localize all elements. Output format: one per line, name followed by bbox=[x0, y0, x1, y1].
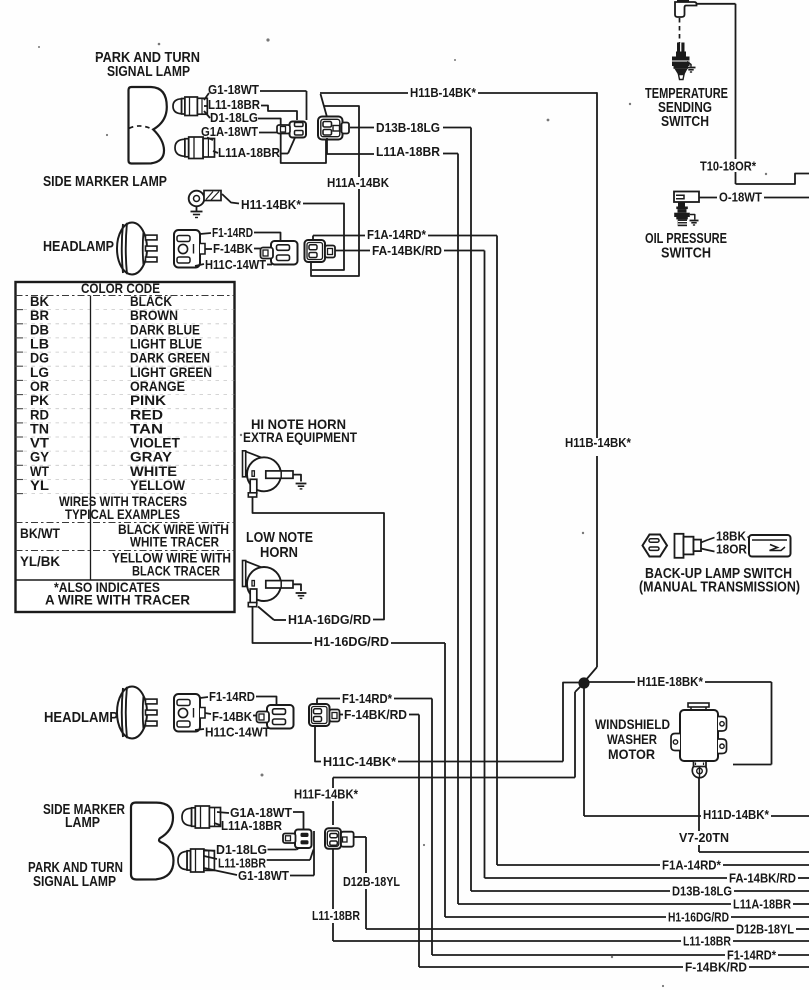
connector - harness side F1*/F (bot) bbox=[309, 704, 340, 726]
wire F-14BK stub (top hl) bbox=[205, 248, 212, 250]
svg-text:YL: YL bbox=[30, 477, 49, 493]
label D1-18LG (bot) bbox=[216, 842, 267, 857]
connector - harness side (front park/turn) bbox=[318, 117, 349, 140]
ground symbol (hi horn) bbox=[296, 484, 307, 489]
svg-text:F1A-14RD*: F1A-14RD* bbox=[367, 227, 427, 242]
svg-text:(MANUAL TRANSMISSION): (MANUAL TRANSMISSION) bbox=[639, 580, 800, 596]
label D12B-18YL (left) bbox=[343, 874, 400, 889]
svg-text:F1-14RD: F1-14RD bbox=[209, 689, 255, 704]
wire V7-20TN bbox=[699, 851, 809, 853]
ground wire (oil switch) bbox=[690, 215, 695, 220]
wire H11F-14BK* vertical bbox=[332, 778, 334, 826]
label H11A-14BK bbox=[327, 175, 390, 190]
wire H1A-16DG/RD loop bbox=[253, 497, 385, 620]
label L11-18BR (bottom fan) bbox=[683, 934, 731, 949]
wire H11E-18BK* stub bbox=[588, 681, 635, 683]
label PARK AND TURN SIGNAL LAMP (bottom) bbox=[28, 860, 123, 890]
svg-text:WINDSHIELD: WINDSHIELD bbox=[595, 716, 670, 732]
wire L11A-18BR vertical bbox=[457, 154, 459, 905]
label D13B-18LG (bottom fan) bbox=[672, 884, 732, 899]
wire D12B-18YL vertical bbox=[365, 837, 367, 929]
label F1-14RD (top hl) bbox=[212, 225, 253, 240]
wire L11-18BR bbox=[204, 106, 297, 121]
svg-text:H11B-14BK*: H11B-14BK* bbox=[410, 85, 477, 100]
label F-14BK (bot hl) bbox=[212, 709, 253, 724]
wire H11E-18BK* vertical bbox=[733, 682, 772, 765]
label H11B-14BK* (top) bbox=[410, 85, 477, 100]
svg-text:G1-18WT: G1-18WT bbox=[238, 868, 289, 883]
wire F-14BK/RD bbox=[409, 714, 419, 716]
wire O-18WT stub bbox=[699, 197, 717, 199]
label D1-18LG bbox=[210, 110, 258, 125]
wire L11A-18BR (front lamp) bbox=[213, 137, 296, 154]
washer motor right ear 2 bbox=[718, 739, 727, 754]
label H11B-14BK* (mid) bbox=[565, 435, 632, 450]
ground symbol (oil switch) bbox=[690, 221, 699, 226]
svg-text:D13B-18LG: D13B-18LG bbox=[672, 884, 732, 899]
label F1-14RD* (bottom fan) bbox=[727, 948, 777, 963]
svg-text:HORN: HORN bbox=[260, 545, 298, 561]
label BACK-UP LAMP SWITCH bbox=[645, 566, 792, 582]
ground eyelet terminal H11 bbox=[189, 191, 221, 207]
svg-text:HEADLAMP: HEADLAMP bbox=[43, 239, 114, 255]
washer pump bbox=[692, 761, 706, 778]
wire L11A-18BR stub (bot) bbox=[214, 823, 220, 825]
svg-text:F-14BK: F-14BK bbox=[213, 241, 254, 256]
wire G1A-18WT bbox=[207, 133, 290, 141]
label O-18WT bbox=[719, 190, 762, 205]
wire T10-18OR* to edge bbox=[736, 174, 810, 185]
svg-text:F1-14RD*: F1-14RD* bbox=[342, 691, 393, 706]
svg-text:D1-18LG: D1-18LG bbox=[210, 110, 258, 125]
bulb socket - park/turn (bottom) bbox=[178, 849, 214, 872]
label F1A-14RD* (top) bbox=[367, 227, 427, 242]
wire F1-14RD* bbox=[394, 698, 432, 700]
wire G1A-18WT (bot) bbox=[293, 812, 304, 829]
low note horn bbox=[243, 561, 294, 607]
wire T10-18OR* vertical bbox=[735, 4, 737, 184]
label F-14BK/RD (bot) bbox=[344, 707, 407, 722]
back-up lamp harness connector bbox=[749, 535, 791, 557]
bulb socket - side marker (bottom) bbox=[182, 806, 221, 828]
wire F-14BK/RD bottom run bbox=[419, 966, 683, 968]
wire from boot to T10 vertical bbox=[697, 3, 736, 5]
wire O-18WT to edge bbox=[764, 197, 809, 199]
svg-text:H11E-18BK*: H11E-18BK* bbox=[637, 674, 704, 689]
label SIDE MARKER LAMP (bottom) bbox=[43, 802, 125, 831]
wire H11C-14BK* from connector bbox=[315, 726, 321, 762]
wire F-14BK/RD stub (bot) bbox=[340, 714, 344, 716]
label (MANUAL TRANSMISSION) bbox=[639, 580, 800, 596]
svg-text:F1-14RD: F1-14RD bbox=[212, 225, 253, 240]
wire F1A-14RD* vertical bbox=[496, 236, 498, 866]
headlamp symbol (bottom) bbox=[117, 687, 157, 739]
label T10-18OR* bbox=[700, 159, 757, 174]
back-up lamp switch connector bbox=[675, 534, 702, 558]
wire F1-14RD* riser (bot) bbox=[317, 699, 340, 705]
wire L11A-18BR bbox=[443, 153, 458, 155]
svg-text:MOTOR: MOTOR bbox=[608, 746, 655, 762]
wire F1A-14RD* to edge bbox=[723, 864, 809, 866]
label L11-18BR bbox=[208, 97, 261, 112]
wire L11-18BR stub (bot) bbox=[204, 856, 217, 859]
wire L11-18BR bottom run bbox=[333, 940, 681, 942]
svg-text:H1-16DG/RD: H1-16DG/RD bbox=[668, 910, 729, 925]
label H11C-14WT (top hl) bbox=[205, 257, 266, 272]
connector - headlamp side (top hl pair) bbox=[261, 241, 298, 265]
svg-text:F-14BK: F-14BK bbox=[212, 709, 253, 724]
junction dot H11 grounds bbox=[578, 677, 589, 688]
label H11C-14WT (bot hl) bbox=[205, 725, 270, 740]
wire F1-14RD stub (top hl) bbox=[200, 233, 211, 234]
wire L11-18BR to edge bbox=[733, 940, 809, 942]
wire H11B-14BK* top run bbox=[320, 92, 408, 94]
svg-text:G1A-18WT: G1A-18WT bbox=[201, 124, 258, 139]
svg-text:TYPICAL EXAMPLES: TYPICAL EXAMPLES bbox=[65, 506, 180, 522]
label G1A-18WT bbox=[201, 124, 258, 139]
label 18OR bbox=[716, 542, 748, 557]
wire H11C-14WT stub (top hl) bbox=[195, 264, 272, 266]
svg-text:L11A-18BR: L11A-18BR bbox=[221, 818, 283, 833]
label F1-14RD (bot hl) bbox=[209, 689, 255, 704]
wire H11C-14BK* bbox=[398, 761, 563, 763]
wire H1-16DG/RD to edge bbox=[731, 916, 809, 918]
svg-text:SWITCH: SWITCH bbox=[661, 114, 709, 130]
svg-text:V7-20TN: V7-20TN bbox=[679, 830, 729, 845]
svg-text:G1-18WT: G1-18WT bbox=[208, 82, 259, 97]
label TEMPERATURE SENDING SWITCH bbox=[645, 86, 728, 130]
wire L11A-18BR from connector bbox=[327, 138, 374, 154]
oil pressure switch connector bbox=[674, 192, 699, 203]
wire H11D vertical bbox=[583, 687, 585, 816]
wire F1-14RD to pair (top hl) bbox=[254, 233, 281, 242]
label L11A-18BR (harness) bbox=[376, 144, 441, 159]
wire H11D-14BK* to edge bbox=[771, 815, 809, 817]
wire H11-14BK* bbox=[303, 204, 344, 271]
svg-text:T10-18OR*: T10-18OR* bbox=[700, 159, 757, 174]
label FA-14BK/RD (bottom fan) bbox=[729, 871, 796, 886]
wire FA-14BK/RD bbox=[444, 250, 485, 252]
ground wire (low horn) bbox=[293, 584, 301, 591]
label HEADLAMP (top) bbox=[43, 239, 114, 255]
wire D1-18LG (bot) bbox=[268, 843, 306, 850]
connector - harness side (bottom marker) bbox=[325, 828, 354, 849]
svg-text:SIGNAL LAMP: SIGNAL LAMP bbox=[33, 874, 116, 890]
wire H1-16DG/RD from horn bbox=[253, 607, 313, 644]
washer motor left ear bbox=[671, 734, 680, 751]
svg-text:BK/WT: BK/WT bbox=[20, 525, 60, 541]
wire D12B-18YL stub bbox=[354, 836, 366, 838]
wire 18OR to connector bbox=[749, 547, 756, 550]
wire FA-14BK/RD bottom run bbox=[485, 877, 728, 879]
svg-text:LOW NOTE: LOW NOTE bbox=[246, 530, 313, 546]
wire to H11C junction bbox=[563, 683, 580, 762]
svg-text:H1-16DG/RD: H1-16DG/RD bbox=[314, 634, 389, 649]
svg-text:BLACK TRACER: BLACK TRACER bbox=[132, 563, 220, 579]
label PARK AND TURN SIGNAL LAMP (front) bbox=[95, 50, 200, 80]
label L11A-18BR (bot) bbox=[221, 818, 283, 833]
connector - lamp side (bottom marker) bbox=[283, 830, 312, 849]
ground wire (hi horn) bbox=[293, 475, 301, 482]
label H11D-14BK* bbox=[703, 807, 770, 822]
wire FA-14BK/RD vertical bbox=[484, 251, 486, 879]
label L11A-18BR (bottom fan) bbox=[733, 897, 792, 912]
wire H1-16DG/RD bottom run bbox=[445, 916, 666, 918]
wire F1-14RD* bottom run bbox=[432, 954, 725, 956]
label F-14BK/RD (bottom fan) bbox=[685, 960, 747, 975]
connector - lamp side (front park/turn) bbox=[277, 122, 306, 138]
svg-text:L11A-18BR: L11A-18BR bbox=[733, 897, 792, 912]
svg-text:L11A-18BR: L11A-18BR bbox=[376, 144, 441, 159]
label L11-18BR (bot lamp) bbox=[218, 856, 266, 871]
svg-text:SIGNAL LAMP: SIGNAL LAMP bbox=[107, 64, 190, 80]
wire D12B-18YL bottom run bbox=[366, 928, 734, 930]
wire L11-18BR (bot) bbox=[267, 850, 314, 861]
wire G1-18WT stub bbox=[204, 93, 209, 100]
svg-text:H11A-14BK: H11A-14BK bbox=[327, 175, 390, 190]
wire G1-18WT lead (bot) bbox=[204, 868, 237, 875]
park/turn signal lamp housing (bottom) bbox=[131, 803, 174, 880]
temperature sending switch sensor bbox=[672, 43, 690, 80]
wire F-14BK to pair (bot hl) bbox=[253, 715, 257, 717]
wire F1-14RD to pair (bot hl) bbox=[256, 697, 277, 706]
svg-text:YELLOW: YELLOW bbox=[130, 477, 186, 493]
headlamp connector block (bottom) bbox=[174, 694, 205, 732]
wire G1A-18WT stub (bot) bbox=[217, 812, 229, 813]
label F1A-14RD* (bottom fan) bbox=[662, 858, 722, 873]
wire H11F-14BK* run bbox=[333, 777, 575, 779]
svg-text:F-14BK/RD: F-14BK/RD bbox=[344, 707, 407, 722]
label H1-16DG/RD (mid) bbox=[314, 634, 389, 649]
svg-text:WHITE TRACER: WHITE TRACER bbox=[130, 534, 219, 550]
temperature sender boot bbox=[675, 0, 697, 17]
wire H11B-14BK* riser bbox=[321, 94, 328, 117]
svg-text:A WIRE WITH TRACER: A WIRE WITH TRACER bbox=[45, 592, 190, 608]
svg-text:F-14BK/RD: F-14BK/RD bbox=[685, 960, 747, 975]
svg-text:H11C-14WT: H11C-14WT bbox=[205, 725, 270, 740]
label SIDE MARKER LAMP (front) bbox=[43, 174, 167, 190]
oil pressure switch body bbox=[674, 202, 690, 226]
wire F1A-14RD* bbox=[428, 235, 497, 237]
wire H11B-14BK* vertical bbox=[585, 92, 597, 681]
wire L11A-18BR bottom run bbox=[458, 903, 731, 905]
ground symbol (temp sender) bbox=[687, 68, 696, 73]
svg-text:18OR: 18OR bbox=[716, 542, 748, 557]
wire F-14BK/RD vertical bbox=[418, 715, 420, 968]
label HI NOTE HORN bbox=[243, 416, 357, 445]
label H11F-14BK* bbox=[294, 787, 359, 802]
back-up lamp switch plug bbox=[643, 535, 668, 557]
park/turn signal lamp housing (front) bbox=[129, 87, 167, 164]
wire F1-14RD* vertical bbox=[431, 699, 433, 956]
bulb socket - park/turn lamp front (upper) bbox=[173, 97, 207, 116]
svg-text:H1A-16DG/RD: H1A-16DG/RD bbox=[288, 612, 371, 627]
wire D13B-18LG to edge bbox=[734, 890, 809, 892]
wire 18BK to connector bbox=[748, 537, 756, 540]
svg-text:H11D-14BK*: H11D-14BK* bbox=[703, 807, 770, 822]
washer motor right ear 1 bbox=[718, 717, 727, 732]
wire H1-16DG/RD bbox=[391, 642, 445, 644]
label L11-18BR (harness) bbox=[312, 908, 360, 923]
wire F-14BK stub (bot hl) bbox=[205, 713, 211, 714]
wire D1-18LG bbox=[204, 111, 326, 163]
headlamp symbol (top) bbox=[117, 223, 157, 275]
windshield washer motor body bbox=[680, 703, 718, 761]
svg-text:H11C-14BK*: H11C-14BK* bbox=[323, 754, 397, 769]
svg-text:FA-14BK/RD: FA-14BK/RD bbox=[372, 243, 442, 258]
wire stub 18BK bbox=[701, 538, 715, 543]
label V7-20TN bbox=[679, 830, 729, 845]
wire L11A-18BR to edge bbox=[793, 903, 809, 905]
svg-text:LAMP: LAMP bbox=[65, 815, 100, 831]
svg-text:SIDE MARKER LAMP: SIDE MARKER LAMP bbox=[43, 174, 167, 190]
svg-text:F1A-14RD*: F1A-14RD* bbox=[662, 858, 722, 873]
color code table bbox=[16, 280, 235, 612]
label D12B-18YL (bottom fan) bbox=[736, 922, 794, 937]
ground symbol (eyelet H11) bbox=[191, 207, 203, 218]
label G1-18WT bbox=[208, 82, 259, 97]
connector - harness side F1A/FA bbox=[305, 240, 336, 262]
wire H11A-14BK bbox=[311, 106, 359, 276]
wire F1A-14RD* riser bbox=[313, 236, 365, 241]
wire D13B-18LG stub bbox=[350, 127, 374, 129]
wire F-14BK to pair (top hl) bbox=[254, 248, 261, 250]
label L11A-18BR (front lamp) bbox=[218, 145, 281, 160]
wire F1-14RD stub (bot hl) bbox=[200, 697, 208, 698]
wire FA-14BK/RD to edge bbox=[798, 877, 809, 879]
svg-text:D12B-18YL: D12B-18YL bbox=[343, 874, 400, 889]
label H11E-18BK* bbox=[637, 674, 704, 689]
ground symbol (low horn) bbox=[296, 593, 307, 598]
wire F1-14RD* to edge bbox=[778, 954, 809, 956]
label H1-16DG/RD (bottom fan) bbox=[668, 910, 729, 925]
label D13B-18LG (top) bbox=[376, 120, 440, 135]
label 18BK bbox=[716, 529, 747, 544]
label G1A-18WT (bot) bbox=[230, 805, 292, 820]
wire D13B-18LG bbox=[443, 127, 471, 129]
svg-text:O-18WT: O-18WT bbox=[719, 190, 762, 205]
label FA-14BK/RD (top) bbox=[372, 243, 442, 258]
wire washer pump down bbox=[698, 777, 700, 852]
low note horn label bbox=[246, 530, 313, 561]
label WINDSHIELD WASHER MOTOR bbox=[595, 716, 670, 762]
headlamp connector block (top) bbox=[174, 230, 205, 268]
label F-14BK (top hl) bbox=[213, 241, 254, 256]
wire H11C-14WT stub (bot hl) bbox=[195, 729, 276, 731]
wire D13B-18LG vertical bbox=[470, 128, 472, 892]
label H1A-16DG/RD bbox=[288, 612, 371, 627]
hi note horn bbox=[243, 451, 294, 497]
svg-text:WASHER: WASHER bbox=[607, 731, 657, 747]
wire L11-18BR vertical (harness) bbox=[332, 849, 334, 941]
svg-text:L11-18BR: L11-18BR bbox=[683, 934, 731, 949]
wire H11E-18BK* bbox=[705, 681, 772, 683]
connector - headlamp side (bot hl pair) bbox=[257, 705, 294, 729]
svg-text:H11C-14WT: H11C-14WT bbox=[205, 257, 266, 272]
wire stub 18OR bbox=[701, 549, 715, 552]
svg-text:L11A-18BR: L11A-18BR bbox=[218, 145, 281, 160]
wire F1A-14RD* bottom run bbox=[497, 864, 660, 866]
svg-text:H11F-14BK*: H11F-14BK* bbox=[294, 787, 359, 802]
wire F-14BK/RD to edge bbox=[749, 966, 809, 968]
wire H11B-14BK* to vertical bbox=[478, 92, 597, 94]
wire D12B-18YL to edge bbox=[796, 928, 809, 930]
label H11C-14BK* bbox=[323, 754, 397, 769]
svg-text:H11-14BK*: H11-14BK* bbox=[241, 197, 302, 212]
wire to H11F junction bbox=[575, 686, 581, 778]
wire G1-18WT (bot) bbox=[290, 831, 314, 876]
svg-text:D13B-18LG: D13B-18LG bbox=[376, 120, 440, 135]
label OIL PRESSURE SWITCH bbox=[645, 231, 727, 262]
svg-text:H11B-14BK*: H11B-14BK* bbox=[565, 435, 632, 450]
wire H1-16DG/RD vertical bbox=[444, 643, 446, 917]
label HEADLAMP (bottom) bbox=[44, 710, 118, 726]
wire D1-18LG stub (bot) bbox=[204, 850, 215, 851]
svg-text:YL/BK: YL/BK bbox=[20, 553, 60, 569]
wire G1-18WT bbox=[260, 91, 307, 120]
label F1-14RD* (bot) bbox=[342, 691, 393, 706]
wire FA-14BK/RD stub bbox=[335, 250, 370, 252]
bulb socket - park/turn lamp front (lower) bbox=[175, 137, 215, 159]
svg-text:EXTRA EQUIPMENT: EXTRA EQUIPMENT bbox=[243, 429, 357, 445]
svg-text:HEADLAMP: HEADLAMP bbox=[44, 710, 118, 726]
ground wire (temp sender) bbox=[687, 62, 691, 67]
svg-text:L11-18BR: L11-18BR bbox=[312, 908, 360, 923]
label G1-18WT (bot) bbox=[238, 868, 289, 883]
label H11-14BK* bbox=[241, 197, 302, 212]
wire H1A-16DG/RD to low horn bbox=[258, 607, 286, 621]
wire H11-14BK* lead bbox=[222, 194, 239, 204]
wire D13B-18LG bottom run bbox=[471, 890, 670, 892]
dashed lead boot-sensor bbox=[679, 18, 681, 43]
wire H11D-14BK* run bbox=[584, 815, 701, 817]
svg-text:FA-14BK/RD: FA-14BK/RD bbox=[729, 871, 796, 886]
svg-text:D12B-18YL: D12B-18YL bbox=[736, 922, 794, 937]
svg-text:SWITCH: SWITCH bbox=[661, 246, 711, 262]
